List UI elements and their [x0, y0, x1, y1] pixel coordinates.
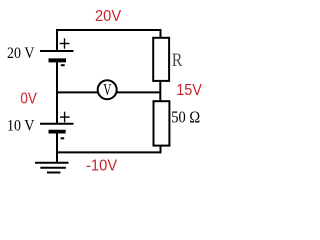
svg-text:10 V: 10 V — [7, 118, 35, 135]
wire bottom horizontal node -10V — [56, 151, 161, 153]
svg-text:0V: 0V — [20, 90, 37, 107]
svg-text:R: R — [172, 50, 183, 71]
voltmeter V — [98, 80, 117, 99]
battery V2 10V plus plate — [40, 123, 74, 125]
svg-text:15V: 15V — [176, 82, 202, 99]
svg-text:-10V: -10V — [86, 157, 118, 174]
battery V2 minus plate — [49, 130, 66, 134]
wire top from node 20V — [56, 29, 162, 31]
ground — [35, 163, 69, 173]
battery V2 plus sign — [60, 112, 70, 123]
wire left vertical node 0V to battery V2 plus — [56, 92, 58, 123]
resistor 50 ohm body — [154, 101, 170, 145]
wire right vertical top corner to resistor R — [160, 29, 162, 38]
wire left vertical battery V1 minus to node 0V — [56, 62, 58, 93]
resistor R body — [153, 38, 169, 81]
svg-text:V: V — [103, 80, 112, 99]
battery V1 plus sign — [60, 38, 70, 48]
svg-text:20 V: 20 V — [7, 45, 35, 62]
wire middle horizontal node 0V to node 15V — [56, 91, 161, 93]
svg-text:20V: 20V — [95, 8, 122, 25]
wire left vertical battery V2 minus to ground — [56, 133, 58, 161]
battery V1 20V plus plate — [40, 50, 74, 52]
wire right vertical resistor 50 to bottom corner — [160, 146, 162, 154]
battery V1 minus plate — [49, 58, 67, 62]
battery V1 minus sign — [61, 64, 65, 66]
battery V2 minus sign — [61, 137, 65, 139]
wire right vertical resistor R to resistor 50 — [159, 81, 161, 101]
wire left vertical top corner to battery V1 plus — [56, 29, 58, 51]
svg-text:50 Ω: 50 Ω — [171, 108, 200, 127]
